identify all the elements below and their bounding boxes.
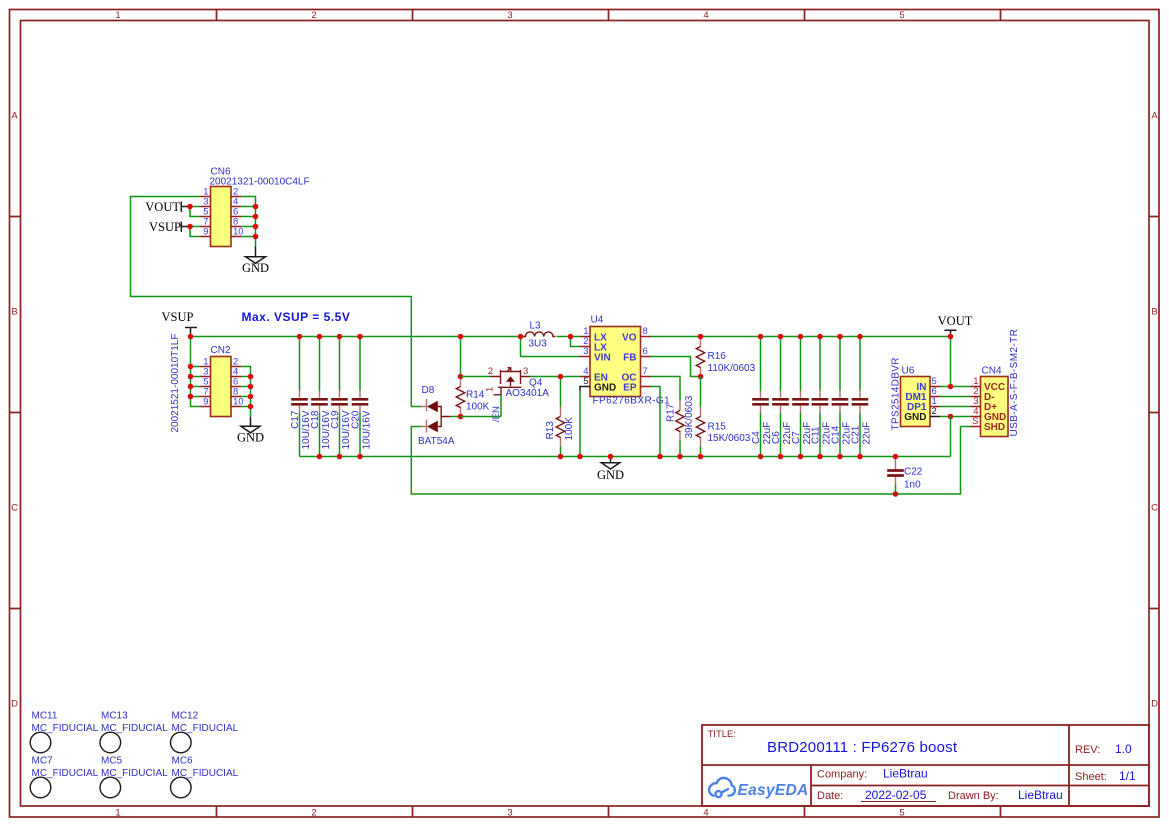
svg-text:MC7: MC7 bbox=[32, 756, 54, 767]
svg-text:39K/0603: 39K/0603 bbox=[684, 395, 695, 438]
ruler ticks top bbox=[217, 10, 1001, 21]
fiducial MC7 bbox=[30, 756, 98, 798]
wire L3 right to U4 pin1 bbox=[557, 336, 581, 338]
resistor R15 bbox=[696, 377, 750, 460]
svg-text:3: 3 bbox=[523, 366, 528, 377]
ground flag CN6 bbox=[255, 247, 257, 257]
capacitor C22 bbox=[887, 454, 923, 497]
svg-text:2: 2 bbox=[311, 10, 316, 21]
U6 pin stubs bbox=[930, 387, 940, 407]
wire right bus CN2 to GND bbox=[241, 367, 251, 418]
connector CN2 bbox=[211, 357, 232, 417]
wire pin1 loop to D8 bbox=[131, 197, 421, 407]
svg-text:R13: R13 bbox=[545, 421, 556, 440]
wire GND riser bbox=[950, 417, 952, 457]
svg-text:20021521-00010T1LF: 20021521-00010T1LF bbox=[170, 334, 181, 433]
svg-text:2: 2 bbox=[932, 406, 937, 417]
svg-text:3U3: 3U3 bbox=[529, 339, 548, 350]
svg-text:100K: 100K bbox=[564, 417, 575, 441]
svg-text:VOUT: VOUT bbox=[938, 314, 973, 328]
U4 GROUP bbox=[518, 315, 951, 460]
D8 R14 Q4 GROUP bbox=[411, 321, 970, 495]
svg-text:3: 3 bbox=[507, 10, 512, 21]
svg-text:FP6276BXR-G1: FP6276BXR-G1 bbox=[593, 396, 671, 407]
svg-text:C4: C4 bbox=[751, 431, 762, 444]
CN2 right pin stubs bbox=[231, 367, 241, 407]
resistor R14 bbox=[456, 334, 489, 420]
svg-text:1n0: 1n0 bbox=[904, 480, 921, 491]
svg-text:FB: FB bbox=[623, 353, 636, 364]
capacitor C7 bbox=[791, 334, 813, 460]
svg-text:5: 5 bbox=[583, 376, 588, 387]
FIDUCIALS bbox=[30, 711, 238, 798]
wire bottom loop D8 to SHD bbox=[411, 427, 970, 495]
svg-text:TITLE:: TITLE: bbox=[708, 729, 737, 740]
wire VOUT riser bbox=[950, 334, 952, 387]
svg-text:MC6: MC6 bbox=[172, 756, 194, 767]
svg-text:C14: C14 bbox=[831, 425, 842, 444]
diode D8 BAT54A bbox=[418, 385, 461, 447]
svg-text:R15: R15 bbox=[708, 422, 727, 433]
svg-text:Q4: Q4 bbox=[529, 378, 543, 389]
CAPS C17-C20 bbox=[290, 334, 951, 460]
svg-text:3: 3 bbox=[583, 346, 588, 357]
svg-text:L3: L3 bbox=[530, 321, 542, 332]
wire EN net bbox=[461, 376, 581, 378]
ground flag mid bbox=[597, 454, 624, 482]
wires U6 to CN4 bbox=[940, 387, 971, 417]
ruler ticks left bbox=[10, 217, 21, 609]
fiducial MC6 bbox=[171, 756, 239, 798]
svg-text:22uF: 22uF bbox=[862, 422, 873, 445]
wire VOUT to pins 3,5 bbox=[190, 206, 201, 208]
CN6 right pin stubs bbox=[231, 197, 241, 237]
svg-text:C20: C20 bbox=[351, 410, 362, 429]
svg-text:C17: C17 bbox=[290, 410, 301, 429]
svg-text:BRD200111 : FP6276 boost: BRD200111 : FP6276 boost bbox=[767, 739, 958, 756]
capacitor C18 bbox=[310, 334, 332, 460]
wire VSUP rail bbox=[191, 334, 525, 337]
svg-text:MC11: MC11 bbox=[32, 711, 58, 722]
fiducial MC5 bbox=[100, 756, 168, 798]
svg-text:8: 8 bbox=[643, 326, 648, 337]
svg-text:CN4: CN4 bbox=[982, 366, 1002, 377]
svg-text:110K/0603: 110K/0603 bbox=[708, 363, 756, 374]
svg-text:2022-02-05: 2022-02-05 bbox=[865, 788, 927, 802]
svg-text:D8: D8 bbox=[422, 385, 435, 396]
svg-text:Company:: Company: bbox=[817, 769, 867, 781]
svg-text:USB-A-S-F-B-SM2-TR: USB-A-S-F-B-SM2-TR bbox=[1009, 329, 1020, 437]
svg-text:3: 3 bbox=[507, 808, 512, 819]
svg-text:20021321-00010C4LF: 20021321-00010C4LF bbox=[210, 177, 310, 188]
svg-text:REV:: REV: bbox=[1075, 744, 1100, 756]
svg-text:GND: GND bbox=[237, 431, 264, 445]
svg-text:2: 2 bbox=[488, 366, 493, 377]
svg-text:4: 4 bbox=[703, 10, 708, 21]
fiducial MC13 bbox=[100, 711, 168, 753]
svg-text:S: S bbox=[972, 416, 978, 427]
svg-text:VO: VO bbox=[622, 333, 637, 344]
svg-text:C: C bbox=[11, 503, 18, 514]
CN2 left pin stubs bbox=[201, 367, 211, 407]
svg-text:2: 2 bbox=[311, 808, 316, 819]
ground flag CN2 bbox=[250, 418, 252, 427]
svg-text:C21: C21 bbox=[851, 425, 862, 444]
svg-text:D: D bbox=[11, 699, 18, 710]
fiducial MC11 bbox=[30, 711, 98, 753]
svg-text:1/1: 1/1 bbox=[1119, 769, 1136, 783]
svg-text:D: D bbox=[1151, 699, 1158, 710]
svg-text:GND: GND bbox=[594, 383, 616, 394]
U4 left pin stubs bbox=[580, 337, 590, 377]
connector CN6 bbox=[211, 187, 232, 247]
svg-text:GND: GND bbox=[242, 261, 269, 275]
capacitor C19 bbox=[330, 334, 352, 460]
svg-text:R16: R16 bbox=[708, 351, 727, 362]
CONNECTOR CN6 GROUP bbox=[131, 167, 421, 407]
svg-text:BAT54A: BAT54A bbox=[418, 436, 455, 447]
capacitor C4 bbox=[751, 334, 773, 460]
svg-text:15K/0603: 15K/0603 bbox=[708, 433, 751, 444]
svg-text:C19: C19 bbox=[330, 410, 341, 429]
svg-text:10U/16V: 10U/16V bbox=[362, 410, 373, 449]
wire left bus CN2 bbox=[191, 337, 201, 407]
junction dots CN2 bbox=[188, 334, 194, 340]
capacitor C14 bbox=[831, 334, 853, 460]
svg-text:6: 6 bbox=[643, 346, 648, 357]
svg-text:C22: C22 bbox=[904, 467, 923, 478]
svg-text:1.0: 1.0 bbox=[1115, 742, 1132, 756]
svg-text:9: 9 bbox=[203, 227, 208, 238]
resistor R17 bbox=[666, 395, 696, 459]
svg-text:C6: C6 bbox=[771, 431, 782, 444]
svg-text:A: A bbox=[11, 111, 18, 122]
svg-text:U4: U4 bbox=[591, 315, 604, 326]
svg-text:R14: R14 bbox=[466, 390, 485, 401]
wire FB net bbox=[651, 357, 701, 377]
capacitor C17 bbox=[290, 334, 312, 457]
svg-text:5: 5 bbox=[899, 808, 904, 819]
capacitor C20 bbox=[351, 334, 373, 460]
resistor R13 bbox=[545, 374, 575, 460]
EasyEDA logo bbox=[709, 778, 735, 797]
resistor R16 bbox=[696, 334, 755, 380]
svg-text:VSUP: VSUP bbox=[162, 310, 194, 324]
wire OC to R17 bbox=[651, 377, 681, 401]
ic U6 TPS2514 bbox=[901, 377, 931, 427]
svg-text:SHD: SHD bbox=[984, 422, 1005, 433]
wire VSUP to pins 7,9 bbox=[190, 226, 201, 228]
wire U4 gnd pin5 bbox=[579, 391, 581, 457]
TITLE BLOCK bbox=[702, 725, 1149, 806]
U6 CN4 GROUP bbox=[887, 314, 1020, 497]
fiducial MC12 bbox=[171, 711, 239, 753]
svg-text:C7: C7 bbox=[791, 431, 802, 444]
svg-text:1: 1 bbox=[485, 387, 496, 392]
junction dots bbox=[187, 204, 193, 210]
capacitor C11 bbox=[811, 334, 833, 460]
op-amp U4 FP6276 bbox=[590, 327, 641, 397]
svg-text:VSUP: VSUP bbox=[149, 220, 181, 234]
wire VO net bbox=[651, 336, 951, 338]
RESISTORS RIGHT bbox=[651, 334, 756, 460]
svg-text:R17: R17 bbox=[666, 403, 677, 422]
capacitor C21 bbox=[851, 334, 873, 460]
svg-text:LieBtrau: LieBtrau bbox=[883, 767, 928, 781]
svg-text:MC12: MC12 bbox=[172, 711, 199, 722]
svg-text:A: A bbox=[1151, 111, 1158, 122]
svg-text:9: 9 bbox=[203, 397, 208, 408]
wire EP bbox=[651, 387, 661, 457]
svg-text:C: C bbox=[1151, 503, 1158, 514]
svg-text:7: 7 bbox=[643, 366, 648, 377]
svg-text:4: 4 bbox=[703, 808, 708, 819]
capacitor C6 bbox=[771, 334, 793, 460]
svg-text:Sheet:: Sheet: bbox=[1075, 771, 1107, 783]
svg-text:CN2: CN2 bbox=[211, 345, 231, 356]
wire pin2 riser bbox=[571, 337, 581, 347]
wire GND rail bbox=[300, 456, 951, 458]
svg-text:1: 1 bbox=[115, 10, 120, 21]
svg-text:B: B bbox=[11, 307, 17, 318]
svg-text:1: 1 bbox=[115, 808, 120, 819]
svg-text:LieBtrau: LieBtrau bbox=[1018, 788, 1063, 802]
CN2 / VSUP GROUP bbox=[162, 310, 580, 445]
svg-text:Date:: Date: bbox=[817, 790, 843, 802]
svg-text:VOUT: VOUT bbox=[145, 200, 180, 214]
CN6 left pin stubs bbox=[201, 197, 211, 237]
svg-text:TPS2514DBVR: TPS2514DBVR bbox=[891, 357, 902, 430]
svg-text:MC5: MC5 bbox=[101, 756, 123, 767]
CN4 pin stubs bbox=[971, 387, 981, 427]
CAPS C4 GROUP bbox=[751, 334, 873, 460]
connector CN4 bbox=[981, 377, 1009, 437]
svg-text:C18: C18 bbox=[310, 410, 321, 429]
svg-text:100K: 100K bbox=[466, 402, 490, 413]
svg-text:Drawn By:: Drawn By: bbox=[948, 790, 999, 802]
ruler ticks bottom bbox=[217, 807, 1001, 818]
svg-text:GND: GND bbox=[597, 468, 624, 482]
ruler ticks right bbox=[1150, 217, 1160, 609]
svg-text:EP: EP bbox=[623, 383, 637, 394]
U4 pin5 black stub bbox=[580, 387, 590, 391]
svg-text:Max. VSUP = 5.5V: Max. VSUP = 5.5V bbox=[242, 310, 351, 324]
svg-text:VIN: VIN bbox=[594, 353, 611, 364]
svg-text:C11: C11 bbox=[811, 426, 822, 444]
svg-text:5: 5 bbox=[899, 10, 904, 21]
svg-text:GND: GND bbox=[904, 412, 926, 423]
svg-text:MC13: MC13 bbox=[101, 711, 128, 722]
U4 right pin stubs bbox=[641, 337, 651, 387]
svg-text:B: B bbox=[1151, 307, 1157, 318]
svg-text:U6: U6 bbox=[902, 366, 915, 377]
wire VIN riser bbox=[521, 337, 581, 357]
wire right bus to GND bbox=[241, 197, 256, 247]
transistor Q4 bbox=[461, 366, 550, 422]
inductor L3 bbox=[523, 321, 555, 350]
svg-text:AO3401A: AO3401A bbox=[506, 388, 550, 399]
svg-text:EasyEDA: EasyEDA bbox=[738, 782, 809, 799]
